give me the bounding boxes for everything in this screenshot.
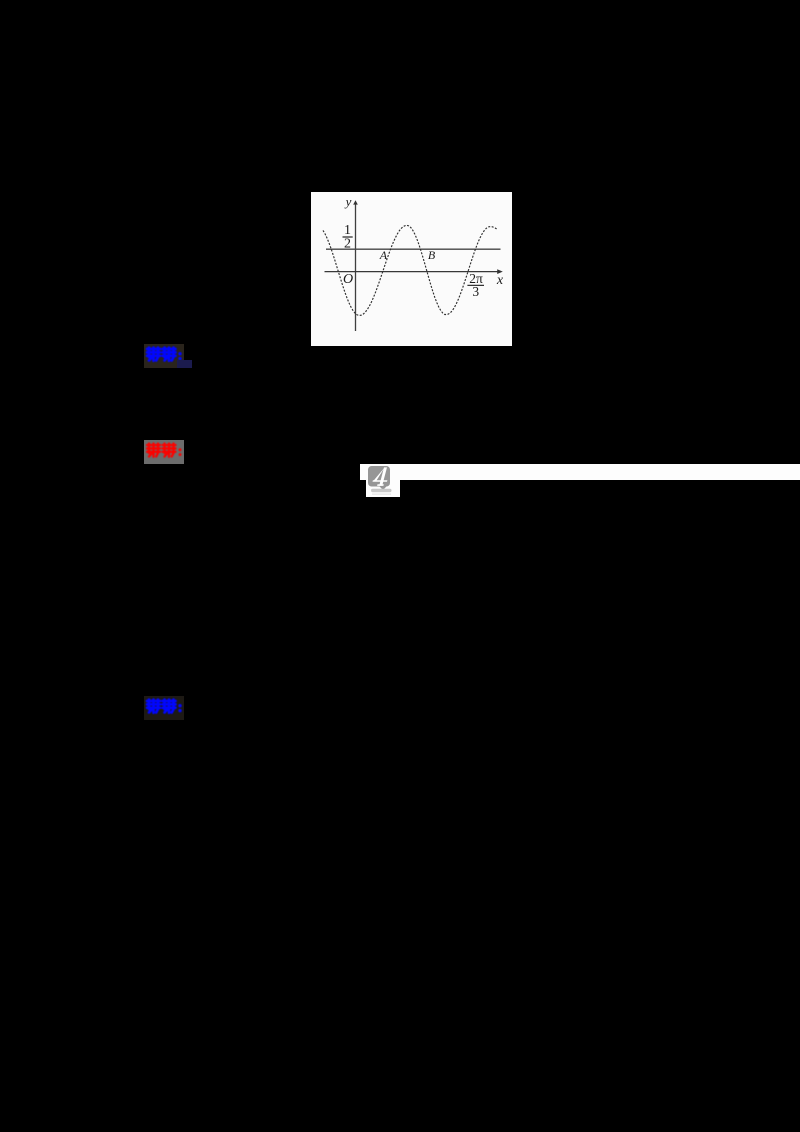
badge tail triangle (380, 486, 387, 490)
white band (360, 464, 800, 480)
red label (answer) (144, 440, 184, 464)
graph white box (311, 192, 512, 346)
faint underline (372, 494, 391, 495)
badge base bar (371, 489, 392, 492)
svg-text:2: 2 (344, 237, 351, 252)
svg-text:x: x (496, 273, 504, 288)
svg-text:B: B (428, 248, 436, 262)
digit 4 drawn as paths (373, 467, 388, 486)
blue label 2 (jiexi) (144, 696, 184, 720)
y-axis (355, 203, 357, 331)
svg-text:y: y (344, 194, 352, 209)
blue label 1 (jiexi) (144, 344, 184, 368)
svg-text:A: A (379, 248, 388, 262)
svg-text:O: O (343, 272, 353, 287)
sine curve dashed (323, 225, 498, 315)
svg-text:3: 3 (472, 284, 479, 299)
navy tail of blue label 1 (177, 360, 192, 369)
white patch around badge (366, 464, 400, 497)
number badge 4 (366, 462, 396, 501)
line y=1/2 (326, 248, 501, 250)
x-axis (325, 271, 500, 273)
x-axis arrowhead (497, 269, 503, 274)
y-axis arrowhead (353, 200, 358, 204)
